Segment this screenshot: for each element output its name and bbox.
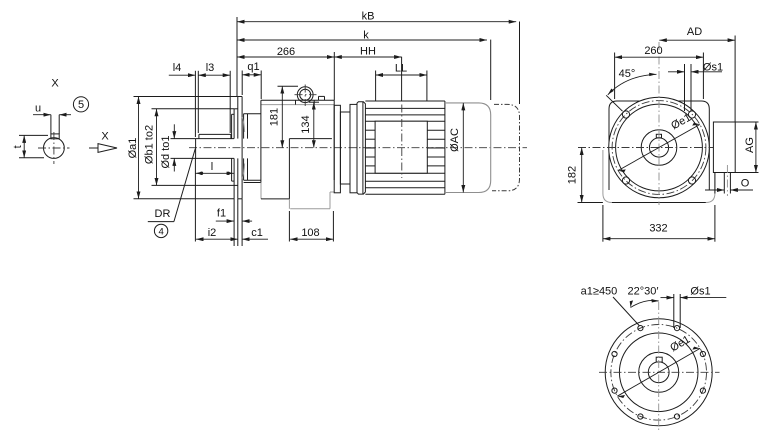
svg-text:5: 5 [78,99,84,111]
svg-text:Øa1: Øa1 [127,138,139,159]
svg-text:l: l [211,161,213,173]
svg-text:kB: kB [362,11,375,23]
svg-text:AD: AD [687,26,702,38]
svg-text:266: 266 [277,46,295,58]
svg-text:HH: HH [360,46,376,58]
svg-text:DR: DR [155,208,171,220]
svg-text:k: k [363,29,369,41]
svg-text:f1: f1 [217,208,226,220]
svg-text:4: 4 [158,226,163,237]
svg-text:108: 108 [301,227,319,239]
svg-text:X: X [101,131,109,143]
svg-text:Ød to1: Ød to1 [160,135,172,168]
svg-text:45°: 45° [619,68,636,80]
svg-text:t: t [12,145,24,148]
svg-text:i2: i2 [208,227,217,239]
svg-text:Øs1: Øs1 [703,61,723,73]
svg-text:332: 332 [649,223,667,235]
svg-text:260: 260 [644,45,662,57]
svg-text:Øb1 to2: Øb1 to2 [143,125,155,164]
svg-text:Øs1: Øs1 [690,285,710,297]
svg-text:22°30′: 22°30′ [628,285,659,297]
svg-text:181: 181 [269,108,281,126]
svg-text:O: O [741,178,750,190]
svg-text:q1: q1 [247,61,259,73]
svg-text:X: X [51,78,59,90]
svg-text:l4: l4 [173,62,182,74]
svg-text:c1: c1 [251,227,263,239]
svg-text:AG: AG [744,137,756,153]
svg-text:182: 182 [567,166,579,184]
svg-text:LL: LL [395,63,407,75]
svg-text:ØAC: ØAC [449,128,461,152]
svg-text:134: 134 [300,115,312,133]
svg-text:l3: l3 [206,62,215,74]
svg-text:u: u [35,103,41,115]
svg-text:a1≥450: a1≥450 [581,285,618,297]
